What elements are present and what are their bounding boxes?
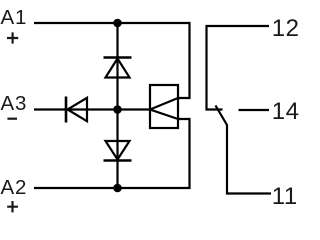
svg-text:11: 11 (272, 183, 298, 210)
svg-text:A3: A3 (1, 92, 28, 115)
svg-text:12: 12 (272, 15, 300, 42)
svg-text:14: 14 (272, 98, 300, 125)
svg-text:A1: A1 (1, 6, 28, 29)
svg-text:A2: A2 (1, 176, 28, 199)
